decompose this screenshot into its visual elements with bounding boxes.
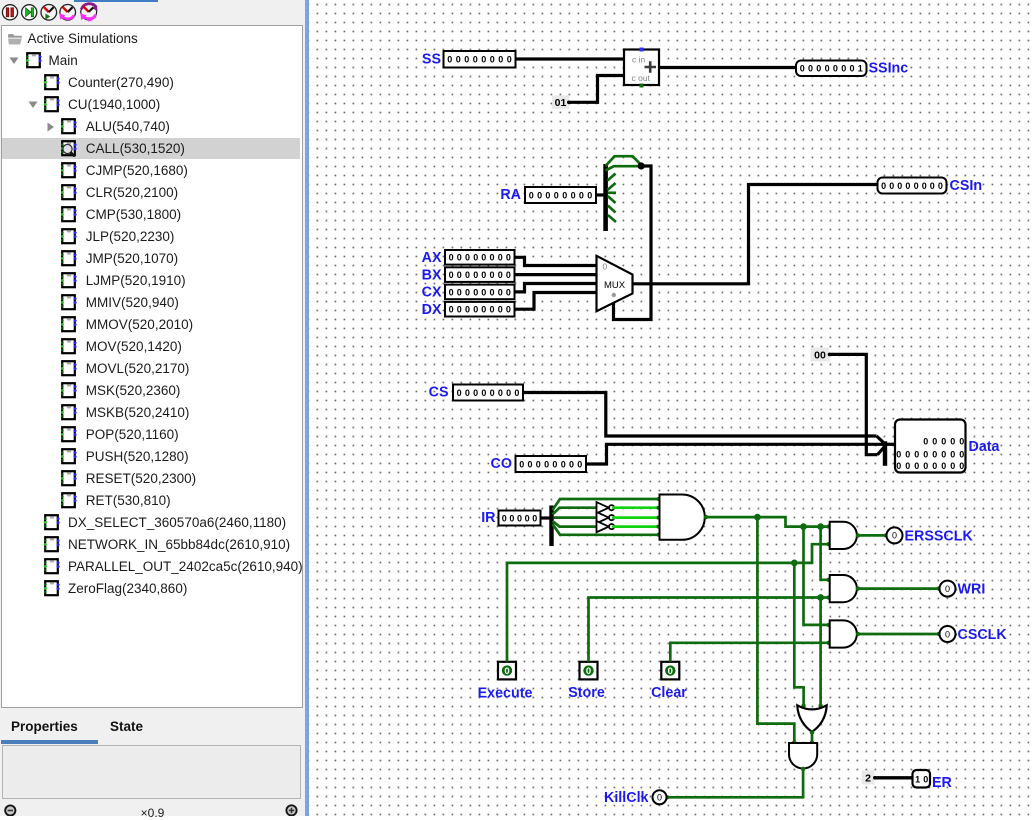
svg-text:0: 0	[849, 64, 854, 74]
svg-text:0: 0	[517, 513, 522, 523]
svg-text:0: 0	[532, 513, 537, 523]
junction F (Store line to OR U6)	[817, 594, 824, 601]
label Store	[568, 685, 605, 701]
svg-text:0: 0	[489, 305, 494, 315]
svg-text:Store: Store	[568, 685, 605, 701]
svg-text:0: 0	[481, 253, 486, 263]
svg-text:0: 0	[938, 181, 943, 191]
wire CS to merge splitter	[524, 393, 877, 437]
svg-text:0: 0	[561, 459, 566, 469]
junction C (to U5 top input)	[800, 523, 807, 530]
svg-text:1: 1	[915, 774, 920, 784]
wire RA to splitter	[597, 193, 604, 196]
svg-text:0: 0	[506, 287, 511, 297]
splitter S1 leg stub b5	[608, 174, 616, 181]
inverter G2 (NOT)	[597, 512, 616, 523]
svg-text:0: 0	[504, 666, 509, 677]
svg-text:0: 0	[525, 513, 530, 523]
input pin AX	[445, 250, 515, 265]
svg-text:0: 0	[923, 461, 928, 471]
svg-text:Data: Data	[969, 439, 1001, 455]
output pin KillClk	[653, 790, 667, 804]
svg-text:0: 0	[473, 270, 478, 280]
label SSInc	[869, 61, 909, 77]
svg-text:0: 0	[544, 459, 549, 469]
wire junction D down to U4 top input	[821, 527, 831, 582]
svg-text:0: 0	[959, 437, 964, 447]
multiplexer MUX U2	[597, 256, 633, 311]
input pin DX	[445, 302, 515, 317]
svg-text:0: 0	[490, 55, 495, 65]
svg-text:0: 0	[506, 388, 511, 398]
svg-text:0: 0	[825, 64, 830, 74]
svg-text:0: 0	[449, 270, 454, 280]
label SS	[422, 52, 441, 68]
svg-text:0: 0	[527, 459, 532, 469]
svg-text:0: 0	[569, 459, 574, 469]
wire U6 output to U7	[810, 730, 814, 744]
svg-text:0: 0	[537, 190, 542, 200]
svg-text:01: 01	[555, 97, 567, 109]
wire U3 output to junction B	[704, 515, 831, 529]
label WRI	[958, 582, 986, 598]
button Execute	[498, 662, 516, 680]
splitter S1 leg stub b2	[608, 196, 616, 203]
svg-text:0: 0	[481, 388, 486, 398]
svg-text:0: 0	[923, 449, 928, 459]
svg-text:0: 0	[481, 287, 486, 297]
svg-text:0: 0	[473, 305, 478, 315]
svg-text:RA: RA	[500, 187, 521, 203]
svg-text:BX: BX	[422, 267, 442, 283]
svg-text:0: 0	[586, 666, 591, 677]
svg-text:0: 0	[959, 461, 964, 471]
constant 00	[811, 348, 832, 362]
svg-text:0: 0	[922, 181, 927, 191]
label AX	[422, 250, 442, 266]
svg-text:0: 0	[950, 461, 955, 471]
svg-text:0: 0	[914, 461, 919, 471]
svg-text:00: 00	[814, 349, 826, 361]
splitter S3 leg b1	[553, 521, 597, 527]
svg-text:0: 0	[498, 270, 503, 280]
svg-text:0: 0	[498, 55, 503, 65]
wire U4 out to pin ERSSCLK	[856, 533, 888, 537]
svg-text:WRI: WRI	[958, 582, 986, 598]
label CX	[422, 285, 442, 301]
svg-text:0: 0	[897, 181, 902, 191]
svg-text:0: 0	[833, 64, 838, 74]
wire CX to MUX input 2	[516, 284, 597, 292]
label ER	[932, 775, 953, 791]
splitter S2 leg from 00	[878, 447, 885, 455]
svg-text:0: 0	[892, 531, 897, 541]
svg-text:0: 0	[457, 270, 462, 280]
splitter S3 leg b2	[554, 516, 597, 519]
splitter S1 leg stub b4	[608, 183, 616, 190]
label DX	[422, 302, 442, 318]
svg-text:MUX: MUX	[604, 280, 626, 291]
inverter G1 (NOT)	[597, 502, 616, 513]
svg-text:0: 0	[945, 629, 950, 639]
svg-text:0: 0	[889, 181, 894, 191]
svg-text:SS: SS	[422, 52, 441, 68]
svg-text:Execute: Execute	[478, 686, 533, 702]
splitter S3 leg b0	[553, 524, 661, 537]
output pin WRI	[940, 581, 956, 597]
wire merge splitter to Data	[885, 443, 894, 446]
label CSIn	[950, 178, 983, 194]
constant 01	[552, 96, 571, 110]
svg-text:0: 0	[457, 287, 462, 297]
svg-text:0: 0	[923, 437, 928, 447]
wire constant 01 to adder input B	[569, 76, 623, 103]
wire SS to adder c-in side	[517, 57, 624, 60]
svg-text:0: 0	[502, 513, 507, 523]
svg-text:0: 0	[941, 461, 946, 471]
svg-text:0: 0	[536, 459, 541, 469]
svg-text:0: 0	[923, 774, 928, 784]
svg-text:0: 0	[509, 513, 514, 523]
AND gate U3 (5-input)	[660, 495, 705, 540]
splitter S1 leg bit6 (routed wire)	[606, 166, 641, 170]
svg-text:0: 0	[905, 449, 910, 459]
svg-text:0: 0	[456, 55, 461, 65]
svg-text:0: 0	[545, 190, 550, 200]
svg-text:0: 0	[603, 262, 608, 272]
wire MUX output to CSIn	[633, 185, 877, 284]
wire constant 00 to merge splitter	[830, 354, 878, 454]
svg-text:0: 0	[506, 270, 511, 280]
svg-text:0: 0	[465, 287, 470, 297]
inverter G3 (NOT)	[597, 521, 616, 532]
label CO	[491, 456, 512, 472]
constant 2	[862, 771, 877, 785]
splitter S1 spine (RA fan-out)	[603, 164, 608, 231]
input pin CO	[516, 456, 587, 472]
splitter S1 leg stub b1	[608, 206, 616, 213]
splitter S3 spine (IR fan-out)	[549, 506, 553, 547]
wire DX to MUX input 3	[516, 293, 597, 310]
label Execute	[478, 686, 533, 702]
svg-text:0: 0	[464, 55, 469, 65]
input pin RA (8-bit register display)	[525, 187, 596, 203]
wire U4b out to pin WRI	[856, 586, 941, 590]
svg-text:0: 0	[457, 305, 462, 315]
wire U7 output to KillClk	[665, 767, 805, 800]
wire G3 out to AND U3	[614, 525, 660, 529]
svg-text:1: 1	[858, 64, 863, 74]
svg-text:0: 0	[945, 584, 950, 594]
svg-text:0: 0	[959, 449, 964, 459]
svg-text:2: 2	[865, 772, 871, 784]
wire G1 out to AND U3	[614, 506, 660, 510]
svg-text:CSIn: CSIn	[950, 178, 983, 194]
svg-text:0: 0	[489, 270, 494, 280]
svg-text:Clear: Clear	[651, 685, 687, 701]
svg-text:CSCLK: CSCLK	[958, 627, 1008, 643]
label IR	[481, 510, 496, 526]
svg-text:0: 0	[506, 253, 511, 263]
label Data	[969, 439, 1001, 455]
svg-text:SSInc: SSInc	[869, 61, 909, 77]
svg-text:0: 0	[498, 253, 503, 263]
splitter S1 leg bit7 (routed wire)	[606, 156, 642, 166]
label CSCLK	[958, 627, 1008, 643]
svg-text:0: 0	[473, 388, 478, 398]
svg-text:0: 0	[930, 181, 935, 191]
svg-text:0: 0	[552, 459, 557, 469]
svg-text:0: 0	[449, 287, 454, 297]
button Clear	[661, 662, 679, 680]
wire junction C down to U5 top input	[804, 527, 831, 628]
wire junction E down to OR U6 input A	[794, 563, 806, 708]
junction B (U3 out fans to gates)	[754, 514, 761, 521]
svg-text:0: 0	[587, 190, 592, 200]
svg-text:0: 0	[529, 190, 534, 200]
svg-text:0: 0	[489, 253, 494, 263]
label ERSSCLK	[905, 529, 974, 545]
output pin ER (value 10)	[913, 770, 931, 788]
label Clear	[651, 685, 687, 701]
svg-text:0: 0	[554, 190, 559, 200]
output pin Data (21-bit display)	[895, 420, 966, 473]
svg-text:AX: AX	[422, 250, 442, 266]
svg-text:0: 0	[932, 449, 937, 459]
svg-text:0: 0	[657, 793, 662, 803]
svg-text:0: 0	[950, 437, 955, 447]
svg-text:CX: CX	[422, 285, 442, 301]
wire Execute to U3row (y563) and up to U4a lower input	[507, 542, 831, 662]
svg-text:0: 0	[841, 64, 846, 74]
svg-text:0: 0	[905, 181, 910, 191]
junction D (to U4b top input)	[817, 523, 824, 530]
svg-text:c in: c in	[632, 55, 646, 65]
svg-text:0: 0	[950, 449, 955, 459]
svg-text:0: 0	[473, 287, 478, 297]
svg-text:0: 0	[473, 253, 478, 263]
svg-text:0: 0	[896, 461, 901, 471]
svg-text:0: 0	[498, 305, 503, 315]
svg-text:IR: IR	[481, 510, 496, 526]
wire BX to MUX input 1	[516, 273, 597, 276]
svg-text:0: 0	[507, 55, 512, 65]
splitter S2 leg from CS	[877, 436, 885, 444]
svg-text:0: 0	[914, 181, 919, 191]
input pin IR (5-bit)	[499, 511, 541, 526]
wire G2 out to AND U3	[614, 516, 660, 520]
svg-text:0: 0	[449, 253, 454, 263]
wire U5 out to pin CSCLK	[856, 632, 941, 636]
svg-text:CO: CO	[491, 456, 512, 472]
svg-text:0: 0	[514, 388, 519, 398]
svg-text:0: 0	[457, 253, 462, 263]
splitter S1 leg stub b0	[608, 215, 616, 222]
wire Store to U4 lower input	[589, 595, 831, 662]
svg-text:0: 0	[571, 190, 576, 200]
wire IR to splitter	[542, 516, 551, 519]
splitter S2 spine (Data bus merge)	[883, 441, 887, 466]
svg-text:0: 0	[481, 270, 486, 280]
AND gate U4b (WRI)	[830, 575, 857, 602]
svg-text:KillClk: KillClk	[604, 790, 649, 806]
input pin SS (8-bit register display)	[444, 51, 516, 68]
button Store	[580, 662, 598, 680]
svg-text:0: 0	[498, 287, 503, 297]
svg-text:0: 0	[932, 437, 937, 447]
svg-text:0: 0	[498, 388, 503, 398]
wire junction F down to OR U6 input B	[818, 598, 822, 709]
wire adder output to SSInc	[660, 66, 795, 69]
svg-text:ER: ER	[932, 775, 953, 791]
junction E (Execute line to OR U6)	[791, 560, 798, 567]
svg-text:0: 0	[668, 666, 673, 677]
splitter S3 leg b4	[553, 497, 661, 510]
svg-text:0: 0	[465, 253, 470, 263]
label KillClk	[604, 790, 649, 806]
svg-text:0: 0	[800, 64, 805, 74]
svg-text:0: 0	[914, 449, 919, 459]
wire constant 2 to ER	[875, 776, 912, 779]
wire junction A to MUX select (down right column)	[614, 166, 652, 320]
svg-text:0: 0	[941, 437, 946, 447]
splitter S1 leg stub b3	[608, 191, 616, 194]
input pin CX	[445, 285, 515, 300]
svg-text:0: 0	[519, 459, 524, 469]
svg-text:0: 0	[473, 55, 478, 65]
svg-text:0: 0	[465, 388, 470, 398]
output pin SSInc (value 00000001)	[796, 61, 867, 77]
svg-text:0: 0	[577, 459, 582, 469]
output pin CSCLK	[940, 626, 956, 642]
svg-text:0: 0	[579, 190, 584, 200]
svg-text:CS: CS	[429, 384, 449, 400]
svg-text:0: 0	[562, 190, 567, 200]
svg-text:0: 0	[449, 305, 454, 315]
svg-text:0: 0	[490, 388, 495, 398]
output pin CSIn	[878, 178, 947, 194]
input pin BX	[445, 267, 515, 282]
svg-text:ERSSCLK: ERSSCLK	[905, 529, 974, 545]
splitter S3 leg b3	[553, 508, 597, 515]
wire junction B down to bottom AND U7	[757, 517, 796, 745]
svg-text:0: 0	[941, 449, 946, 459]
svg-text:0: 0	[447, 55, 452, 65]
svg-text:0: 0	[881, 181, 886, 191]
svg-text:0: 0	[465, 270, 470, 280]
wire CO to merge splitter	[587, 444, 884, 464]
svg-text:0: 0	[481, 55, 486, 65]
AND gate U4 (ERSSCLK)	[830, 522, 857, 549]
OR gate U6 (facing down)	[797, 705, 826, 732]
svg-text:0: 0	[481, 305, 486, 315]
svg-text:0: 0	[896, 449, 901, 459]
label CS	[429, 384, 449, 400]
svg-text:0: 0	[816, 64, 821, 74]
label RA	[500, 187, 521, 203]
label BX	[422, 267, 442, 283]
wire Clear to U5 lower input	[670, 641, 831, 662]
svg-text:0: 0	[808, 64, 813, 74]
svg-text:0: 0	[932, 461, 937, 471]
junction A (splitter output joins select wire)	[638, 162, 645, 169]
AND gate U5 (CSCLK)	[830, 620, 857, 647]
output pin ERSSCLK	[887, 527, 903, 543]
input pin CS	[453, 385, 523, 401]
svg-text:0: 0	[457, 388, 462, 398]
svg-text:0: 0	[489, 287, 494, 297]
svg-text:DX: DX	[422, 302, 442, 318]
svg-text:0: 0	[506, 305, 511, 315]
svg-text:0: 0	[465, 305, 470, 315]
adder U1 (+, c in / c out)	[624, 48, 659, 88]
svg-text:c out: c out	[632, 73, 651, 83]
svg-text:0: 0	[905, 461, 910, 471]
wire AX to MUX input 0	[516, 257, 597, 265]
AND gate U7 (facing down)	[789, 743, 817, 768]
